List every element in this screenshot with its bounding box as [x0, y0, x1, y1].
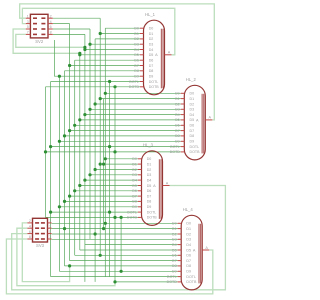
svg-text:D0: D0	[147, 157, 152, 161]
wire net N$4 SV2 pin7 wrap to column D4	[16, 34, 85, 47]
junction	[73, 189, 76, 192]
svg-text:D2: D2	[190, 102, 195, 106]
svg-text:D8: D8	[149, 69, 154, 73]
wire row D8 to HL_4	[65, 265, 178, 267]
HL_4 pin DOTL	[178, 276, 182, 278]
svg-text:D9: D9	[186, 270, 191, 274]
svg-text:D1: D1	[175, 97, 180, 101]
junction	[120, 270, 123, 273]
svg-text:DOTB: DOTB	[149, 85, 160, 89]
svg-text:D8: D8	[175, 134, 180, 138]
wire net N$3 SV2 pin5 wrap to column D5	[13, 29, 80, 53]
junction	[58, 205, 61, 208]
HL_2 pin DOTL	[181, 146, 185, 148]
junction	[104, 92, 107, 95]
svg-text:D0: D0	[134, 27, 139, 31]
HL_2 pin D4	[181, 114, 185, 116]
wire net N$8 SV3 pin4 wrap to HL_4 DOTB row	[17, 228, 115, 286]
SV2 pin 3	[26, 23, 31, 25]
junction	[108, 80, 111, 83]
HL_4 pin D6	[178, 254, 182, 256]
HL_4 anode bar	[198, 224, 200, 284]
junction	[63, 134, 66, 137]
svg-text:D7: D7	[149, 64, 154, 68]
nixie tube HL_2 body	[184, 85, 205, 160]
svg-text:7: 7	[49, 235, 51, 239]
svg-text:D9: D9	[147, 205, 152, 209]
svg-text:D1: D1	[190, 97, 195, 101]
wire column net D3	[89, 29, 91, 239]
svg-text:D5: D5	[175, 118, 180, 122]
svg-text:D1: D1	[186, 227, 191, 231]
svg-text:HL_2: HL_2	[186, 77, 197, 82]
wire transfer vertical right of SV3	[120, 217, 122, 271]
HL_4 pin DOTB	[178, 281, 182, 283]
wire transfer vertical net D1	[103, 99, 105, 229]
wire row D4 to HL_4	[85, 244, 178, 246]
svg-text:D0: D0	[149, 27, 154, 31]
svg-text:D5: D5	[190, 118, 195, 122]
wire SV2 pin4 feed to column D7	[53, 23, 70, 25]
svg-text:D2: D2	[172, 232, 177, 236]
wire row D9 to HL_1	[59, 75, 139, 77]
junction	[73, 124, 76, 127]
svg-text:5: 5	[49, 230, 51, 234]
wire row D4 to HL_2	[85, 114, 181, 116]
svg-text:D8: D8	[186, 264, 191, 268]
HL_3 pin DOTL	[138, 211, 142, 213]
HL_3 pin D3	[138, 174, 142, 176]
HL_1 pin D2	[140, 38, 144, 40]
HL_2 pin D6	[181, 124, 185, 126]
HL_1 pin D0	[140, 27, 144, 29]
HL_1 pin D9	[140, 75, 144, 77]
wire row D6 to HL_2	[75, 124, 181, 126]
svg-text:7: 7	[27, 31, 29, 35]
nixie tube HL_4 body	[181, 215, 202, 290]
wire row D2 to HL_2	[95, 103, 181, 105]
svg-text:D1: D1	[172, 227, 177, 231]
svg-text:4: 4	[50, 20, 52, 24]
wire row D7 to HL_1	[70, 65, 140, 67]
HL_2 pin A	[205, 119, 212, 121]
wire row D1 to HL_3	[100, 163, 138, 165]
svg-text:D1: D1	[132, 162, 137, 166]
svg-text:SV2: SV2	[35, 39, 44, 44]
SV2 pin 6	[48, 28, 53, 30]
HL_4 pin A	[202, 249, 209, 251]
wire row D1 to HL_1	[100, 33, 140, 35]
HL_3 pin D7	[138, 195, 142, 197]
HL_1 pin A	[165, 54, 172, 56]
wire column net DOTB	[45, 87, 47, 218]
junction	[99, 163, 102, 166]
svg-text:D6: D6	[147, 189, 152, 193]
HL_4 pin D5	[178, 249, 182, 251]
junction	[88, 43, 91, 46]
HL_1 anode bar	[160, 29, 162, 89]
svg-text:D7: D7	[186, 259, 191, 263]
wire row D9 to HL_4	[59, 270, 177, 272]
nixie tube HL_3 body	[142, 151, 163, 226]
junction	[63, 227, 66, 230]
svg-text:D9: D9	[134, 75, 139, 79]
junction	[63, 200, 66, 203]
wire transfer vertical net DOTB	[114, 87, 116, 282]
wire row DOTB to HL_2	[46, 151, 181, 153]
HL_1 pin D7	[140, 65, 144, 67]
svg-text:D2: D2	[134, 37, 139, 41]
SV2 pads row 3	[33, 28, 37, 30]
svg-text:D4: D4	[186, 243, 191, 247]
SV2 pin 4	[48, 23, 53, 25]
junction	[83, 113, 86, 116]
svg-text:D6: D6	[132, 189, 137, 193]
svg-text:4: 4	[29, 224, 31, 228]
wire row D0 to HL_2	[105, 92, 180, 94]
HL_3 pin D0	[138, 158, 142, 160]
wire row D5 to HL_4	[80, 249, 178, 251]
HL_2 pin D2	[181, 103, 185, 105]
wire net N$7 SV3 pin2 wrap to HL_4 D8 row	[22, 223, 69, 282]
svg-text:D2: D2	[186, 232, 191, 236]
SV3 pin 6	[27, 233, 32, 235]
SV3 pin 1	[48, 222, 52, 224]
svg-text:D6: D6	[172, 254, 177, 258]
junction	[88, 173, 91, 176]
SV2 pads row 1	[33, 17, 37, 19]
svg-text:D0: D0	[190, 92, 195, 96]
HL_2 pin D1	[181, 98, 185, 100]
junction	[102, 227, 105, 230]
SV2 pin 2	[48, 17, 53, 19]
wire row D6 to HL_1	[75, 59, 140, 61]
wire SV2 pin8 feed to column D4	[53, 33, 85, 35]
svg-text:DOTL: DOTL	[149, 80, 159, 84]
junction	[99, 254, 102, 257]
wire column net DOTL	[50, 82, 52, 277]
junction	[113, 216, 116, 219]
wire row D7 to HL_3	[70, 195, 138, 197]
svg-text:D6: D6	[186, 254, 191, 258]
HL_1 pin D4	[140, 49, 144, 51]
SV2 pin 7	[26, 33, 31, 35]
SV2 pads row 2	[33, 23, 37, 25]
junction	[94, 102, 97, 105]
wire row D2 to HL_3	[95, 169, 138, 171]
junction	[78, 52, 81, 55]
svg-text:D6: D6	[134, 59, 139, 63]
junction	[88, 108, 91, 111]
wire row D0 to HL_4	[52, 222, 178, 224]
wire row D4 to HL_1	[85, 49, 140, 51]
svg-text:D3: D3	[149, 43, 154, 47]
HL_2 pin DOTB	[181, 151, 185, 153]
junction	[83, 179, 86, 182]
svg-text:D4: D4	[190, 113, 195, 117]
svg-text:HL_1: HL_1	[145, 12, 156, 17]
svg-text:D6: D6	[190, 124, 195, 128]
SV2 pin 5	[26, 28, 31, 30]
svg-text:D2: D2	[175, 102, 180, 106]
svg-text:A: A	[193, 248, 196, 252]
SV2 pin 8	[48, 33, 53, 35]
wire row DOTL to HL_2	[51, 146, 181, 148]
svg-text:D0: D0	[175, 92, 180, 96]
junction	[102, 163, 105, 166]
HL_3 pin D4	[138, 179, 142, 181]
SV3 pads row 4	[35, 238, 39, 240]
svg-text:DOTB: DOTB	[147, 216, 158, 220]
SV3 pin 2	[27, 222, 32, 224]
junction	[58, 140, 61, 143]
wire row D3 to HL_1	[90, 43, 140, 45]
svg-text:D2: D2	[147, 168, 152, 172]
wire row D3 to HL_4	[52, 238, 178, 240]
wire row D4 to HL_3	[85, 179, 138, 181]
junction	[68, 264, 71, 267]
svg-text:5: 5	[27, 25, 29, 29]
HL_2 pin D8	[181, 135, 185, 137]
wire row D9 to HL_2	[59, 140, 180, 142]
svg-text:6: 6	[50, 25, 52, 29]
svg-text:8: 8	[29, 235, 31, 239]
svg-text:D7: D7	[190, 129, 195, 133]
svg-text:DOTL: DOTL	[170, 145, 180, 149]
junction	[49, 145, 52, 148]
SV3 pin 7	[48, 238, 52, 240]
junction	[120, 216, 123, 219]
svg-text:8: 8	[50, 31, 52, 35]
svg-text:DOTL: DOTL	[147, 210, 157, 214]
svg-text:D5: D5	[134, 53, 139, 57]
svg-text:HL_4: HL_4	[183, 207, 194, 212]
svg-text:D4: D4	[134, 48, 139, 52]
SV3 pin 4	[27, 227, 32, 229]
HL_3 pin D1	[138, 163, 142, 165]
wire transfer vertical net DOTL	[109, 82, 111, 277]
svg-text:DOTL: DOTL	[190, 145, 200, 149]
svg-text:6: 6	[29, 230, 31, 234]
svg-text:D1: D1	[149, 32, 154, 36]
svg-text:D8: D8	[147, 200, 152, 204]
HL_2 pin D5	[181, 119, 185, 121]
svg-text:D6: D6	[149, 59, 154, 63]
svg-text:D8: D8	[190, 134, 195, 138]
svg-text:D7: D7	[172, 259, 177, 263]
svg-text:DOTB: DOTB	[129, 85, 140, 89]
wire feed to HL_1 D9 row	[54, 40, 59, 76]
junction	[49, 211, 52, 214]
wire column net D0	[104, 28, 106, 276]
wire row D7 to HL_4	[70, 260, 178, 262]
wire row D9 to HL_3	[59, 206, 137, 208]
svg-text:D4: D4	[175, 113, 180, 117]
HL_1 pin D1	[140, 33, 144, 35]
svg-text:D5: D5	[149, 53, 154, 57]
svg-text:D3: D3	[172, 238, 177, 242]
wire column net D6	[74, 60, 76, 255]
junction	[104, 222, 107, 225]
svg-text:D7: D7	[134, 64, 139, 68]
junction	[68, 129, 71, 132]
svg-text:D7: D7	[175, 129, 180, 133]
svg-text:3: 3	[27, 20, 29, 24]
wire row D6 to HL_4	[75, 254, 178, 256]
wire row D1 to HL_4	[52, 228, 178, 230]
HL_3 pin D8	[138, 200, 142, 202]
nixie tube HL_1 body	[144, 20, 165, 95]
HL_4 pin D8	[178, 265, 182, 267]
junction	[113, 150, 116, 153]
wire column net D1	[99, 18, 101, 255]
svg-text:DOTB: DOTB	[186, 280, 197, 284]
wire row DOTB to HL_4	[115, 281, 178, 283]
svg-text:DOTL: DOTL	[186, 275, 196, 279]
svg-text:D4: D4	[172, 243, 177, 247]
svg-text:1: 1	[49, 219, 51, 223]
HL_1 pin D3	[140, 43, 144, 45]
junction	[108, 145, 111, 148]
wire row D2 to HL_1	[95, 38, 140, 40]
svg-text:D0: D0	[172, 222, 177, 226]
svg-text:D3: D3	[134, 43, 139, 47]
HL_4 pin D7	[178, 260, 182, 262]
svg-text:D0: D0	[132, 157, 137, 161]
svg-text:D9: D9	[190, 140, 195, 144]
svg-text:2: 2	[29, 219, 31, 223]
svg-text:D7: D7	[132, 194, 137, 198]
svg-text:D2: D2	[132, 168, 137, 172]
junction	[68, 195, 71, 198]
svg-text:D8: D8	[134, 69, 139, 73]
wire row DOTL to HL_3	[51, 211, 138, 213]
HL_2 pin D0	[181, 92, 185, 94]
svg-text:D4: D4	[149, 48, 154, 52]
wire row D1 to HL_2	[100, 98, 181, 100]
svg-text:D0: D0	[186, 222, 191, 226]
wire row DOTL to HL_4	[51, 276, 178, 278]
junction	[113, 85, 116, 88]
wire net N$6 HL_4 anode loop to SV3 pin8	[6, 239, 212, 294]
SV2 pin 1	[26, 17, 31, 19]
svg-text:DOTL: DOTL	[129, 80, 139, 84]
wire row D0 to HL_3	[105, 158, 138, 160]
pin header SV3 body	[33, 218, 48, 242]
svg-text:D5: D5	[147, 184, 152, 188]
wire net N$2 SV2 pin3 to HL_1 anode	[22, 8, 174, 55]
junction	[99, 97, 102, 100]
svg-text:D9: D9	[172, 270, 177, 274]
svg-text:D2: D2	[149, 37, 154, 41]
wire row DOTB to HL_1	[46, 86, 140, 88]
wire column net D4	[84, 34, 86, 282]
SV2 pads row 4	[33, 34, 37, 36]
wire column net D2	[94, 39, 96, 282]
svg-text:HL_3: HL_3	[143, 143, 154, 148]
wire row D3 to HL_2	[90, 108, 181, 110]
wire row D8 to HL_2	[65, 135, 181, 137]
wire row DOTB to HL_3	[46, 216, 138, 218]
wire row D8 to HL_1	[65, 70, 140, 72]
svg-text:D3: D3	[175, 108, 180, 112]
HL_3 anode bar	[158, 159, 160, 219]
svg-text:D1: D1	[134, 32, 139, 36]
junction	[44, 150, 47, 153]
svg-text:DOTL: DOTL	[127, 210, 137, 214]
svg-text:D7: D7	[147, 194, 152, 198]
wire column net D5	[79, 53, 81, 250]
SV3 pads row 2	[35, 227, 39, 229]
svg-text:D1: D1	[147, 162, 152, 166]
SV3 pin 8	[27, 238, 32, 240]
HL_4 pin D4	[178, 244, 182, 246]
svg-text:2: 2	[50, 14, 52, 18]
junction	[113, 280, 116, 283]
junction	[58, 75, 61, 78]
wire row DOTL to HL_1	[51, 81, 140, 83]
HL_4 pin D1	[178, 228, 182, 230]
svg-text:SV3: SV3	[36, 243, 45, 248]
junction	[68, 64, 71, 67]
svg-text:DOTB: DOTB	[167, 280, 178, 284]
junction	[94, 168, 97, 171]
junction	[108, 211, 111, 214]
svg-text:DOTB: DOTB	[170, 150, 181, 154]
wire column net D8	[64, 71, 66, 266]
wire row D6 to HL_3	[75, 190, 138, 192]
junction	[83, 48, 86, 51]
junction	[104, 157, 107, 160]
HL_1 pin DOTL	[140, 81, 144, 83]
wire row D5 to HL_2	[80, 119, 181, 121]
svg-text:D3: D3	[190, 108, 195, 112]
wire SV2 pin6 feed to column D3	[53, 28, 90, 30]
wire SV2 pin2 feed to column D1	[53, 17, 100, 19]
junction	[78, 184, 81, 187]
svg-text:A: A	[205, 246, 208, 250]
svg-text:3: 3	[49, 224, 51, 228]
HL_2 pin D7	[181, 130, 185, 132]
HL_1 pin D5	[140, 54, 144, 56]
svg-text:D6: D6	[175, 124, 180, 128]
SV3 pads row 3	[35, 233, 39, 235]
svg-text:D3: D3	[186, 238, 191, 242]
wire net N$5 HL_3 anode loop to SV3 pin6	[12, 186, 226, 290]
HL_1 pin D8	[140, 70, 144, 72]
HL_4 pin D2	[178, 233, 182, 235]
svg-text:DOTL: DOTL	[167, 275, 177, 279]
HL_4 pin D9	[178, 270, 182, 272]
junction	[78, 53, 81, 56]
HL_3 pin D6	[138, 190, 142, 192]
HL_3 pin DOTB	[138, 216, 142, 218]
HL_2 pin D9	[181, 140, 185, 142]
wire row D3 to HL_3	[90, 174, 138, 176]
HL_3 pin D9	[138, 206, 142, 208]
HL_3 pin D5	[138, 185, 142, 187]
svg-text:D5: D5	[186, 248, 191, 252]
SV3 pads row 1	[35, 222, 39, 224]
HL_2 anode bar	[201, 94, 203, 154]
SV3 pin 5	[48, 233, 52, 235]
HL_3 pin D2	[138, 169, 142, 171]
svg-text:D8: D8	[132, 200, 137, 204]
svg-text:D8: D8	[172, 264, 177, 268]
wire row D0 to HL_1	[105, 27, 140, 29]
wire row D5 to HL_1	[80, 54, 140, 56]
junction	[99, 32, 102, 35]
